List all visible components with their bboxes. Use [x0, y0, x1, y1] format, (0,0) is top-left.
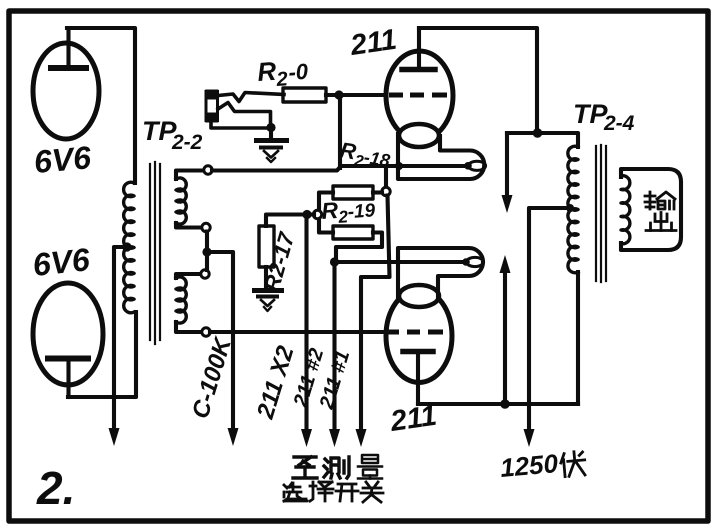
terminal circle R2-19 right: [382, 187, 390, 195]
tube V3 211 (top): [386, 28, 453, 147]
filament end oval V3: [464, 161, 485, 170]
wire V2 plate to TP2-2 primary bottom: [68, 312, 136, 397]
plate bar V4: [403, 349, 433, 355]
filament hairpin V4: [398, 248, 483, 299]
filament hairpin V3: [398, 134, 484, 179]
R2-17 bottom wire: [264, 267, 268, 290]
择: [310, 482, 333, 501]
terminal circle 3: [201, 270, 209, 278]
至: [293, 457, 317, 478]
wire node down to R2-18 line: [338, 95, 342, 168]
svg-text:1250: 1250: [499, 448, 560, 483]
filament end oval V4: [462, 257, 483, 266]
resistor R2-0: [283, 88, 326, 102]
arrow down 211#1: [356, 429, 367, 447]
stub to 2nd terminal: [176, 223, 201, 228]
plate bar V2: [48, 356, 88, 362]
plate bar V3: [402, 67, 435, 73]
wire 211x2 down: [304, 215, 308, 434]
关: [361, 482, 383, 502]
plate lead V2: [66, 361, 70, 397]
plate lead V4: [416, 354, 420, 404]
wire 211#2 down: [332, 262, 336, 433]
svg-text:6V6: 6V6: [31, 241, 92, 283]
hanzi caption 选择开关: [284, 482, 383, 502]
TP2-4 primary winding: [568, 146, 578, 273]
transformer TP2-2 primary winding: [124, 182, 134, 312]
hanzi 输: [645, 192, 675, 209]
svg-text:2-2: 2-2: [171, 131, 203, 154]
svg-text:-0: -0: [288, 59, 310, 85]
选: [284, 483, 307, 501]
svg-text:2-4: 2-4: [603, 112, 635, 135]
jack sleeve wire: [211, 121, 266, 128]
stub to bottom terminal: [176, 322, 201, 332]
terminal circle 4: [202, 328, 210, 336]
arrow down C-100K: [228, 428, 239, 446]
secondary series link: [205, 232, 209, 271]
plate lead V1: [66, 28, 70, 66]
TP2-2 core: [150, 162, 160, 344]
resistor R2-17: [259, 226, 274, 267]
hanzi 出: [646, 213, 676, 231]
grid dashes V3: [389, 93, 447, 98]
wire R2-19 right down to 211#1: [361, 196, 390, 434]
wire V3 plate to top node: [419, 28, 537, 130]
label R2-19: [321, 194, 377, 228]
wire R2-0 to grid: [326, 93, 384, 97]
量: [358, 455, 382, 479]
node TP2-4 tap: [566, 204, 574, 212]
label 输出 (output): [645, 192, 676, 231]
R2-19 left bracket: [319, 193, 333, 233]
wire V1 plate to TP2-2 primary top: [67, 28, 135, 183]
wire centre tap to C-100K arrow: [207, 252, 233, 432]
label R2-0: [256, 56, 309, 91]
wire tap to B+ arrow: [114, 247, 127, 432]
svg-text:C-100K: C-100K: [187, 333, 237, 422]
terminal circle 2: [202, 223, 210, 231]
hanzi 伏: [560, 451, 586, 477]
node top right: [533, 128, 543, 138]
svg-text:2: 2: [275, 68, 289, 91]
arrow up filament bottom: [503, 264, 507, 404]
svg-text:2.: 2.: [36, 462, 75, 514]
node R2-17/211x2: [302, 210, 311, 219]
tube V4 211 (bottom): [386, 285, 452, 404]
terminal circle top: [204, 166, 212, 174]
wire V4 plate bottom run: [418, 402, 578, 406]
label TP2-4: [573, 99, 635, 135]
wire node to TP2-4 primary top: [507, 133, 578, 147]
label TP2-2: [142, 116, 203, 154]
tube V1 6V6 (top): [33, 28, 99, 139]
node 211#2: [330, 257, 339, 266]
svg-text:211: 211: [348, 24, 399, 62]
R2-19b right Z link: [336, 233, 382, 259]
jack NC contact: [218, 103, 271, 124]
stub to 3rd terminal: [176, 274, 200, 278]
plate lead V3: [417, 28, 421, 67]
wire filament feed bottom: [335, 260, 463, 264]
filament dome V3: [399, 124, 439, 147]
filament dome V4: [399, 285, 439, 307]
node jack ground: [266, 123, 275, 132]
plate bar V1: [51, 65, 86, 71]
wire R2-18 (filament feed top): [212, 166, 464, 171]
开: [336, 484, 358, 501]
TP2-4 secondary winding: [621, 176, 630, 244]
jack tip contact to R2-0: [218, 93, 284, 102]
arrow down 211#2: [329, 429, 340, 447]
svg-text:211 X2: 211 X2: [252, 342, 300, 423]
node R2-0 out: [334, 90, 343, 99]
branch to R2-19: [384, 167, 388, 188]
R2-19a right link: [373, 190, 382, 194]
node filament crossing: [395, 162, 403, 170]
TP2-4 core: [596, 145, 606, 282]
测: [324, 457, 349, 478]
stub to top terminal: [176, 171, 203, 180]
node secondary centre: [202, 247, 211, 256]
TP2-4 primary bottom stub: [576, 272, 580, 404]
wire grid (bottom 211) from TP2-2: [210, 330, 384, 334]
hanzi caption 至测量: [293, 455, 382, 479]
grid dashes V4: [386, 330, 443, 335]
TP2-2 primary center tap: [122, 242, 131, 251]
jack J1 body: [205, 90, 220, 122]
ground GND2: [255, 291, 282, 312]
label 1250V: [499, 448, 560, 483]
arrow down filament top: [505, 133, 509, 204]
output loop: [621, 169, 681, 250]
arrow down 1250V: [524, 429, 535, 447]
node bottom right: [500, 399, 510, 409]
arrow down 211x2: [301, 429, 312, 447]
svg-text:6V6: 6V6: [32, 139, 92, 180]
tube V2 6V6 (bottom): [33, 283, 103, 397]
TP2-2 secondary top winding: [176, 178, 186, 224]
resistor R2-19b: [333, 226, 373, 239]
TP2-2 secondary bottom winding: [176, 277, 186, 323]
arrow down (6V6 B+): [109, 428, 120, 446]
wire tap to 1250V arrow: [529, 208, 570, 433]
ground GND1: [257, 131, 287, 162]
terminal circle R2-19 left: [313, 210, 321, 218]
svg-text:R: R: [256, 56, 277, 87]
R2-17 top wire: [266, 215, 314, 227]
resistor R2-19a: [333, 186, 373, 199]
